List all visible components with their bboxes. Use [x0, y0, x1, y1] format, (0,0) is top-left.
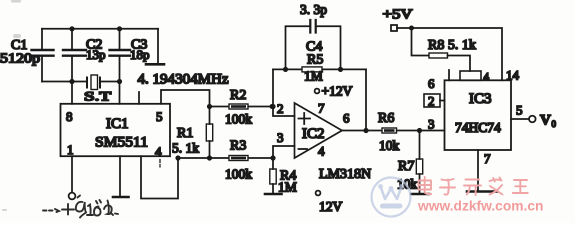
node R3 left	[175, 155, 180, 160]
svg-text:2: 2	[428, 94, 435, 109]
svg-text:1M: 1M	[278, 180, 297, 195]
IC1 SM5511	[61, 104, 171, 156]
pin4 stub dashes	[159, 160, 161, 167]
node C3 bottom	[117, 79, 122, 84]
plus input mark	[299, 113, 311, 124]
wire top bus	[42, 28, 158, 30]
wire pin5 to R2 node	[161, 90, 210, 107]
wire feedback row	[273, 68, 366, 70]
svg-text:7: 7	[318, 101, 325, 116]
resistor R6	[382, 128, 397, 133]
wire +5V rail	[397, 28, 502, 80]
resistor R2	[229, 104, 248, 109]
node C2 bottom	[69, 79, 74, 84]
node R2 right / pin2	[270, 104, 275, 109]
node C4 left	[283, 67, 288, 72]
svg-text:100k: 100k	[225, 167, 252, 182]
wire pin5 output	[511, 118, 529, 120]
svg-text:LM318N: LM318N	[319, 167, 371, 182]
wire pin3 jog	[273, 146, 295, 169]
svg-text:8: 8	[66, 109, 73, 124]
node R1 bottom	[207, 155, 212, 160]
svg-text:6: 6	[428, 76, 435, 91]
svg-text:1M: 1M	[304, 69, 323, 84]
capacitor C4 branch	[286, 20, 341, 69]
ground R4	[265, 193, 282, 196]
resistor R7	[416, 131, 422, 194]
watermark text 电子开发网 drawn as strokes	[419, 177, 528, 195]
ground IC1	[113, 196, 129, 199]
svg-text:1: 1	[67, 142, 74, 157]
wire output row	[342, 130, 445, 132]
wire R3 row	[178, 157, 273, 159]
ground R7	[411, 193, 429, 196]
ground bar for caps	[146, 63, 164, 66]
svg-text:74HC74: 74HC74	[455, 120, 501, 135]
svg-text:R5: R5	[307, 53, 323, 68]
wire IC1 gnd pin	[119, 156, 121, 196]
wire R2 row	[210, 106, 274, 108]
op-amp IC2	[295, 103, 343, 158]
node R2 left	[207, 104, 212, 109]
node feedback/output	[363, 128, 368, 133]
wire ground drop from top bus	[157, 29, 159, 63]
terminal Vo	[529, 116, 536, 123]
resistor R1	[206, 107, 212, 159]
svg-text:IC3: IC3	[469, 91, 492, 107]
capacitor C2	[63, 29, 86, 82]
svg-text:4. 194304MHz: 4. 194304MHz	[138, 72, 230, 88]
svg-text:R3: R3	[230, 139, 246, 154]
resistor R3	[229, 156, 248, 161]
wire feedback right drop	[365, 69, 367, 130]
node C2 top	[69, 26, 74, 31]
IC3 74HC74	[445, 80, 512, 150]
svg-text:R1: R1	[177, 126, 193, 141]
watermark logo	[372, 178, 411, 217]
svg-text:4: 4	[318, 144, 325, 159]
svg-text:10k: 10k	[379, 138, 400, 153]
svg-text:3. 3p: 3. 3p	[300, 2, 327, 17]
svg-text:100k: 100k	[225, 112, 252, 127]
svg-text:R2: R2	[230, 88, 246, 103]
wire IC1 bottom to R3 row	[141, 156, 178, 198]
ground IC3	[467, 190, 497, 193]
resistor R4	[270, 169, 276, 193]
svg-text:5. 1k: 5. 1k	[172, 141, 199, 156]
svg-text:5: 5	[156, 109, 163, 124]
svg-text:7: 7	[484, 151, 491, 166]
capacitor C1	[32, 29, 54, 82]
svg-text:13p: 13p	[86, 47, 106, 62]
svg-text:C4: C4	[306, 40, 322, 55]
terminal -12V	[316, 191, 321, 196]
wire IC1 pin1	[71, 156, 73, 192]
svg-text:R7: R7	[398, 159, 414, 174]
node pin3	[270, 155, 275, 160]
svg-text:4: 4	[155, 144, 162, 159]
svg-text:5: 5	[516, 103, 523, 118]
resistor R8	[412, 28, 471, 71]
svg-text:12V: 12V	[319, 199, 343, 214]
svg-text:3: 3	[277, 130, 284, 145]
pin2 box	[424, 94, 440, 107]
svg-text:+12V: +12V	[322, 84, 353, 99]
minus input mark	[299, 148, 308, 150]
svg-text:R6: R6	[378, 111, 394, 126]
svg-text:SM5511: SM5511	[95, 135, 148, 151]
svg-text:6: 6	[343, 111, 350, 126]
wire pin drop to IC1	[119, 82, 121, 104]
svg-text:5120p: 5120p	[0, 52, 40, 67]
terminal +5V	[391, 25, 397, 31]
svg-text:3: 3	[428, 117, 435, 132]
wire pin8 drop	[71, 82, 73, 104]
svg-text:18p: 18p	[130, 47, 150, 62]
terminal pin1	[69, 193, 76, 200]
pin6 stub	[448, 70, 450, 80]
svg-text:IC2: IC2	[302, 126, 325, 142]
node R8 top	[409, 26, 414, 31]
crystal S.T	[87, 75, 100, 90]
svg-text:2: 2	[277, 101, 284, 116]
wire pin2 jog	[273, 69, 295, 116]
handwriting annotation	[43, 196, 118, 218]
svg-text:IC1: IC1	[106, 116, 129, 132]
node R7 top	[417, 128, 422, 133]
svg-text:www.dzkfw.com.cn: www.dzkfw.com.cn	[417, 199, 543, 214]
svg-text:V: V	[540, 113, 551, 129]
node C3 top	[117, 26, 122, 31]
wire bottom bus	[42, 81, 120, 83]
pin4 box IC3	[460, 71, 481, 80]
wire pin7 ground	[477, 150, 479, 191]
svg-text:S.T: S.T	[84, 89, 111, 104]
terminal +12V	[315, 89, 320, 94]
capacitor C3	[110, 29, 131, 82]
wire stub IC1 top	[138, 92, 140, 104]
svg-text:0: 0	[552, 119, 557, 129]
scan smudges	[2, 0, 21, 211]
svg-text:R8 5. 1k: R8 5. 1k	[428, 38, 476, 53]
resistor R5	[302, 67, 322, 72]
svg-text:+5V: +5V	[383, 8, 413, 23]
node C4 right	[338, 67, 343, 72]
node pin2	[270, 104, 275, 109]
